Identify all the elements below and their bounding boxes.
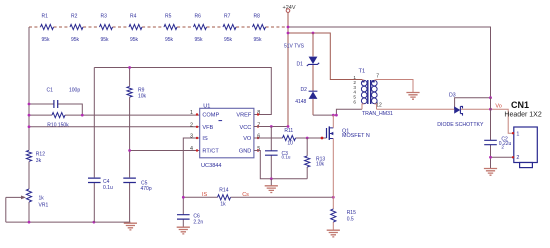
svg-text:VREF: VREF (236, 112, 252, 118)
node gate red dot (321, 137, 324, 140)
svg-text:10k: 10k (138, 93, 147, 99)
resistor R4 (129, 14, 142, 44)
svg-text:3: 3 (190, 134, 193, 140)
svg-text:R6: R6 (195, 14, 202, 20)
svg-text:0.1u: 0.1u (282, 155, 291, 160)
wire secondary top to ground (377, 80, 414, 93)
svg-text:U1: U1 (203, 103, 210, 109)
resistor R10 150k (29, 113, 200, 129)
node junction Cs R15 (332, 196, 335, 199)
svg-text:COMP: COMP (202, 112, 219, 118)
svg-text:95k: 95k (42, 37, 51, 43)
svg-text:R5: R5 (165, 14, 172, 20)
svg-text:1k: 1k (39, 195, 45, 201)
wire C4 branch vertical (93, 68, 95, 223)
op-amp U1 UC3844 box (200, 103, 254, 169)
node junction RT/CT (128, 149, 131, 152)
svg-text:10: 10 (287, 140, 293, 146)
wire CN1 pin2 (491, 156, 514, 158)
node junction IS line (182, 196, 185, 199)
node junction bypass top (489, 96, 492, 99)
resistor R3 (100, 14, 113, 44)
diode D1 51V TVS (284, 44, 319, 68)
svg-text:1k: 1k (220, 202, 226, 208)
resistor R15 0.5 (331, 199, 356, 230)
svg-text:UC3844: UC3844 (201, 163, 222, 169)
svg-text:95k: 95k (195, 37, 204, 43)
svg-text:D2: D2 (301, 87, 308, 93)
node junction snubber branch (287, 32, 290, 35)
node junction C1 left (28, 103, 31, 106)
svg-text:R11: R11 (284, 128, 293, 134)
svg-text:4148: 4148 (295, 99, 306, 105)
svg-text:IS: IS (202, 192, 208, 198)
svg-text:95k: 95k (224, 37, 233, 43)
wire +24V vertical to VCC (287, 12, 289, 126)
resistor R12 3k (26, 150, 45, 164)
svg-text:DIODE SCHOTTKY: DIODE SCHOTTKY (437, 122, 484, 128)
svg-text:CN1: CN1 (511, 100, 529, 110)
svg-text:D3: D3 (449, 93, 456, 99)
wire RT/CT to R9 C5 junction (130, 150, 200, 152)
potentiometer VR1 1k (6, 189, 49, 222)
svg-text:TRAN_HM31: TRAN_HM31 (362, 111, 393, 117)
node junction drain (332, 114, 335, 117)
capacitor C2 0.22u (484, 136, 511, 149)
node junction R10 left (28, 114, 31, 117)
resistor R6 (194, 14, 207, 44)
svg-text:2: 2 (516, 155, 519, 161)
svg-text:R7: R7 (224, 14, 231, 20)
wire MOSFET drain lead (332, 115, 334, 128)
node junction C3 top (270, 125, 273, 128)
resistor R14 1k (218, 187, 231, 207)
ground C6 (177, 227, 190, 234)
resistor R13 10k (305, 138, 326, 179)
diode D3 DIODE SCHOTTKY (437, 93, 484, 129)
pin dot CN1 1 (512, 132, 514, 134)
wire bottom rail (6, 221, 131, 223)
svg-text:R1: R1 (42, 14, 49, 20)
wire D3 bypass from top rail (455, 98, 491, 110)
svg-text:D1: D1 (297, 61, 304, 67)
resistor R11 10 (283, 128, 296, 146)
svg-text:1: 1 (516, 131, 519, 137)
svg-text:0.5: 0.5 (347, 217, 354, 223)
svg-text:Cs: Cs (242, 192, 249, 198)
svg-text:2: 2 (190, 122, 193, 128)
svg-text:95k: 95k (130, 37, 139, 43)
svg-text:VFB: VFB (202, 125, 213, 131)
resistor R5 (164, 14, 177, 44)
svg-text:R14: R14 (219, 187, 228, 193)
svg-text:10k: 10k (316, 162, 325, 168)
capacitor C3 0.1u (265, 151, 291, 160)
transistor Q1 MOSFET N (327, 126, 370, 139)
transformer T1 TRAN_HM31 (353, 69, 393, 117)
svg-text:IS: IS (202, 136, 208, 142)
svg-text:VO: VO (243, 136, 252, 142)
node junction C1-R10 right (81, 114, 84, 117)
svg-text:Header 1X2: Header 1X2 (504, 111, 541, 118)
wire VFB to left rail (29, 126, 200, 128)
svg-text:R2: R2 (71, 14, 78, 20)
svg-text:2: 2 (501, 144, 504, 149)
pin dots U1 left (196, 113, 198, 151)
node junction VCC +24V (287, 125, 290, 128)
node junction R13 top (306, 137, 309, 140)
svg-text:95k: 95k (165, 37, 174, 43)
diode D2 4148 (295, 87, 317, 105)
svg-text:RT/CT: RT/CT (202, 149, 219, 155)
power +24V (283, 5, 296, 13)
node junction VFB rail (28, 125, 31, 128)
wire drain node horizontal (313, 109, 362, 115)
svg-text:6: 6 (353, 100, 356, 105)
svg-text:7: 7 (376, 74, 379, 80)
svg-text:0.1u: 0.1u (103, 185, 113, 191)
svg-text:R8: R8 (254, 14, 261, 20)
capacitor C1 100p (29, 88, 82, 116)
wire GND pin route (254, 151, 307, 179)
svg-text:95k: 95k (71, 37, 80, 43)
wire IS pin branch (183, 138, 199, 227)
wire secondary bottom to D3 (377, 109, 514, 133)
svg-text:R12: R12 (36, 152, 45, 158)
ground transformer pin 7 (406, 93, 419, 100)
wire VCC to +24V (254, 126, 288, 128)
wire MOSFET source lead to R15 (332, 139, 334, 199)
ground bottom rail (124, 223, 137, 230)
resistor R8 (253, 14, 266, 44)
svg-text:12: 12 (376, 103, 382, 109)
node junction VR1 bottom (28, 221, 31, 224)
svg-text:VR1: VR1 (39, 203, 49, 209)
ground R15 (327, 230, 340, 237)
node junction TVS top (312, 32, 315, 35)
svg-text:GND: GND (239, 149, 251, 155)
resistor R2 (70, 14, 83, 44)
svg-text:95k: 95k (101, 37, 110, 43)
wire TVS diode chain vertical (312, 33, 314, 115)
ground output (484, 169, 497, 176)
svg-text:R4: R4 (130, 14, 137, 20)
svg-text:MOSFET N: MOSFET N (342, 133, 370, 139)
resistor R7 (223, 14, 236, 44)
svg-text:2.2n: 2.2n (193, 219, 203, 225)
node junction +24V rail (287, 26, 290, 29)
svg-text:R3: R3 (101, 14, 108, 20)
svg-text:R15: R15 (347, 210, 356, 216)
wire output vertical C2 branch (490, 98, 492, 169)
node junction Vo (489, 108, 492, 111)
ground GND pin (265, 179, 278, 193)
wire VO gate drive (254, 137, 327, 139)
svg-text:4: 4 (190, 146, 193, 152)
wire R9 C5 branch vertical (129, 68, 131, 223)
connector CN1 Header 1X2 (504, 100, 541, 168)
svg-text:Vo: Vo (495, 104, 501, 110)
wire top rail left segment with resistor chain (29, 26, 288, 28)
wire current sense line Cs (183, 196, 333, 198)
left rail vertical (28, 27, 30, 222)
node junction C4 bottom (93, 221, 96, 224)
svg-text:95k: 95k (254, 37, 263, 43)
node junction R9 top (128, 66, 131, 69)
pin dots U1 right (257, 113, 259, 151)
wire top rail right to output (288, 27, 491, 98)
node junction C2 bottom (489, 156, 492, 159)
node junction drain corner (335, 114, 338, 117)
capacitor C4 0.1u (88, 178, 113, 191)
node junction C3 bottom (270, 177, 273, 180)
svg-text:C1: C1 (47, 88, 54, 94)
svg-text:470p: 470p (141, 186, 152, 192)
capacitor C6 2.2n (177, 214, 203, 226)
wire snubber branch to primary top (288, 33, 362, 80)
svg-text:51V TVS: 51V TVS (284, 44, 305, 50)
svg-text:T1: T1 (359, 69, 366, 75)
pin dot CN1 2 (512, 156, 514, 158)
svg-text:R10 150k: R10 150k (47, 123, 69, 129)
wire C3 branch (270, 127, 272, 179)
capacitor C5 470p (123, 178, 152, 192)
svg-text:1: 1 (190, 110, 193, 116)
resistor R9 10k (127, 87, 147, 100)
wire VREF feedback loop (94, 68, 271, 115)
svg-text:VCC: VCC (239, 125, 251, 131)
svg-text:100p: 100p (69, 88, 80, 94)
resistor R1 (41, 14, 54, 44)
svg-text:3k: 3k (36, 158, 42, 164)
